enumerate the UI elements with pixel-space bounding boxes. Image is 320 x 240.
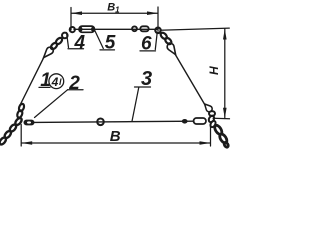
svg-text:5: 5	[105, 32, 116, 53]
svg-text:3: 3	[141, 68, 152, 90]
svg-text:6: 6	[141, 33, 152, 54]
svg-text:2: 2	[68, 73, 80, 94]
svg-text:4: 4	[74, 32, 86, 53]
svg-text:B: B	[110, 128, 121, 145]
svg-text:4: 4	[51, 75, 59, 89]
svg-text:H: H	[207, 66, 221, 75]
svg-text:B1: B1	[107, 2, 120, 15]
